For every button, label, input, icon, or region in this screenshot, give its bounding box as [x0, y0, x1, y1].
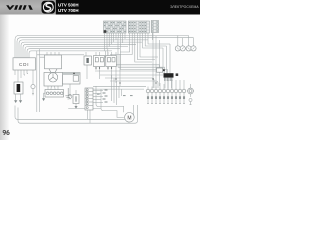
connector table T2 drop wires — [120, 33, 130, 52]
coil ground wires — [15, 94, 17, 103]
ground chassis symbol — [65, 88, 71, 99]
black connector block — [164, 73, 174, 81]
svg-text:UTV 700H: UTV 700H — [58, 8, 79, 13]
magneto generator G — [44, 69, 63, 86]
svg-text:M: M — [127, 115, 131, 121]
page background — [0, 0, 200, 140]
ground ticks — [15, 74, 78, 109]
component outlines — [13, 46, 196, 122]
relay K2 — [94, 56, 105, 67]
connector table T1 drop wires — [104, 33, 106, 51]
svg-text:CDI: CDI — [19, 62, 29, 67]
relay K1 — [84, 56, 92, 65]
ignition coil T1 — [14, 82, 23, 94]
regulator rectifier box — [45, 55, 62, 69]
junction dots — [95, 67, 156, 83]
battery connector feed wire — [44, 93, 45, 98]
CDI down wires — [14, 70, 16, 75]
right long drop wires — [152, 33, 154, 88]
starter relay box — [63, 73, 81, 85]
connector table T1 — [104, 21, 127, 33]
bottom connector right wires — [93, 90, 103, 92]
relay K3 — [106, 56, 117, 67]
starter motor M — [125, 113, 135, 123]
battery connector — [45, 90, 64, 98]
main harness connector — [85, 88, 93, 110]
CDI unit U1 — [13, 58, 36, 70]
page number — [3, 130, 9, 134]
model text — [58, 3, 79, 13]
connector specks — [163, 69, 178, 76]
headlight feed wires — [176, 36, 178, 46]
bottom return loop — [15, 105, 134, 119]
header banner gray left — [0, 0, 56, 15]
badge logo S — [42, 1, 56, 14]
terminal pin row — [147, 97, 192, 105]
svg-text:ЭЛЕКТРОСХЕМА: ЭЛЕКТРОСХЕМА — [170, 5, 199, 9]
aux box right — [157, 68, 163, 72]
horizontal mid-right wires — [95, 70, 156, 72]
headlight lamps — [175, 46, 196, 51]
wire label smudges — [97, 89, 133, 102]
page left edge shading — [0, 14, 10, 140]
relay cluster drop wires — [95, 67, 97, 71]
lamp circle connector stubs — [148, 80, 184, 89]
brand logo strokes — [6, 5, 33, 10]
mid feed wires to boxes — [37, 54, 84, 56]
wire bundle CDI to bus — [15, 36, 176, 59]
connector table T2 — [128, 21, 149, 33]
spark plug P1 — [31, 85, 35, 89]
terminal circle row — [146, 88, 193, 94]
fuse holder F1 — [68, 95, 72, 99]
connector table T3 — [151, 21, 158, 33]
fuse box — [73, 95, 79, 104]
starter circuit wires — [69, 84, 71, 96]
header banner black — [0, 0, 200, 15]
magneto stem wires — [51, 83, 52, 90]
